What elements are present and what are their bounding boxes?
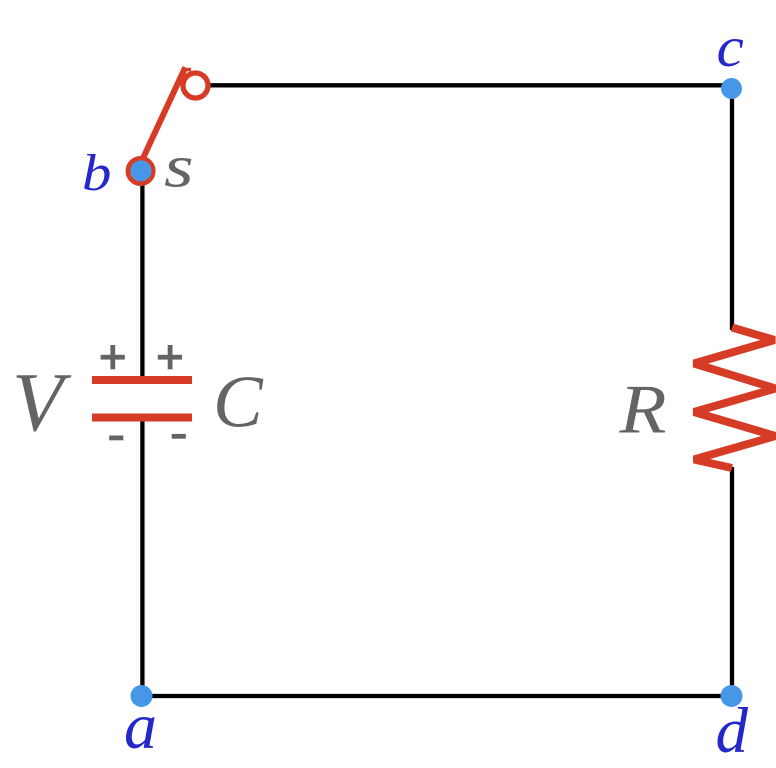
svg-text:V: V [12, 356, 72, 449]
svg-text:s: s [164, 133, 194, 199]
svg-text:a: a [124, 690, 157, 763]
svg-text:d: d [716, 695, 749, 767]
svg-text:R: R [618, 370, 666, 448]
svg-text:c: c [717, 15, 744, 78]
svg-text:b: b [82, 145, 111, 202]
svg-text:C: C [213, 362, 264, 444]
